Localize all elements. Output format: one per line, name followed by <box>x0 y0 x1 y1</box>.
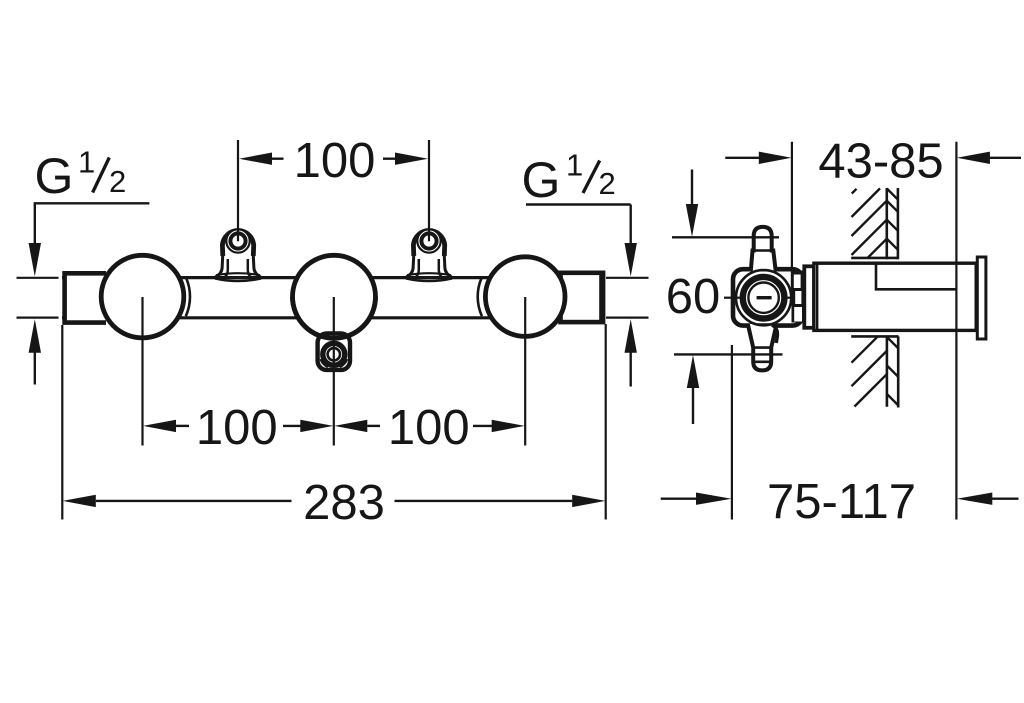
svg-text:283: 283 <box>303 476 385 530</box>
dimension: 283 <box>61 325 63 520</box>
wall section (top) <box>851 188 898 259</box>
right cap thick edge <box>599 271 605 324</box>
svg-text:G: G <box>522 152 561 208</box>
left G1/2 socket cap <box>65 273 106 322</box>
dimension: 60 <box>672 236 779 238</box>
node: circle 1 centerline <box>141 297 143 446</box>
valve body circle 1 <box>101 255 184 338</box>
top mounting bracket 2 <box>406 229 452 281</box>
svg-text:1: 1 <box>566 148 583 183</box>
valve center dash <box>757 296 772 299</box>
node: circle 3 centerline <box>524 297 526 446</box>
svg-text:1: 1 <box>78 145 95 180</box>
wire: tube top edge <box>62 276 605 279</box>
svg-text:43-85: 43-85 <box>818 135 943 189</box>
valve body circle 3 <box>485 257 565 337</box>
node: bracket 2 centerline <box>428 140 430 241</box>
dimension: bottom 100 / 100 <box>143 420 176 432</box>
circle 2 lower arc redrawn over bracket <box>293 297 376 338</box>
bottom wing prong <box>748 324 777 370</box>
label G1/2 right <box>522 148 616 209</box>
right G1/2 socket cap <box>561 273 604 322</box>
svg-text:100: 100 <box>196 401 278 455</box>
svg-text:100: 100 <box>294 134 376 188</box>
protection sleeve cylinder <box>814 263 976 330</box>
svg-text:G: G <box>35 148 74 204</box>
svg-text:100: 100 <box>388 401 470 455</box>
sleeve recess notch <box>876 265 957 290</box>
top wing prong <box>751 227 776 271</box>
valve rings (side) <box>736 270 791 325</box>
node: bracket 1 centerline <box>237 140 239 241</box>
dimension: right G1/2 leader <box>526 203 631 205</box>
sleeve inner edge line <box>816 263 818 330</box>
top mounting bracket 1 <box>215 229 261 281</box>
svg-text:2: 2 <box>109 164 126 199</box>
svg-text:2: 2 <box>599 166 616 201</box>
flange arc right of circle 1 <box>186 278 190 317</box>
label G1/2 left <box>35 145 127 205</box>
svg-text:75-117: 75-117 <box>767 475 916 529</box>
svg-text:60: 60 <box>666 270 721 324</box>
valve body circle 2 <box>293 255 376 338</box>
wall section (bottom) <box>851 336 898 407</box>
dimension: top 100 <box>272 157 396 159</box>
flange arc left of circle 3 <box>478 278 482 317</box>
dimension: 75-117 <box>731 345 733 520</box>
dimension: left G1/2 leader <box>34 202 150 204</box>
sleeve collar <box>804 266 814 328</box>
wire: horizontal centerline segments <box>724 297 740 299</box>
bottom mounting bracket under circle 2 <box>318 334 350 370</box>
wall flange plate <box>977 257 986 339</box>
wire: tube bottom edge <box>62 316 605 319</box>
node: circle 2 centerline <box>333 297 335 446</box>
bracket seen from side (dark piece) <box>792 271 805 323</box>
valve body (side) <box>733 269 803 325</box>
dimension: 43-85 <box>791 142 793 294</box>
